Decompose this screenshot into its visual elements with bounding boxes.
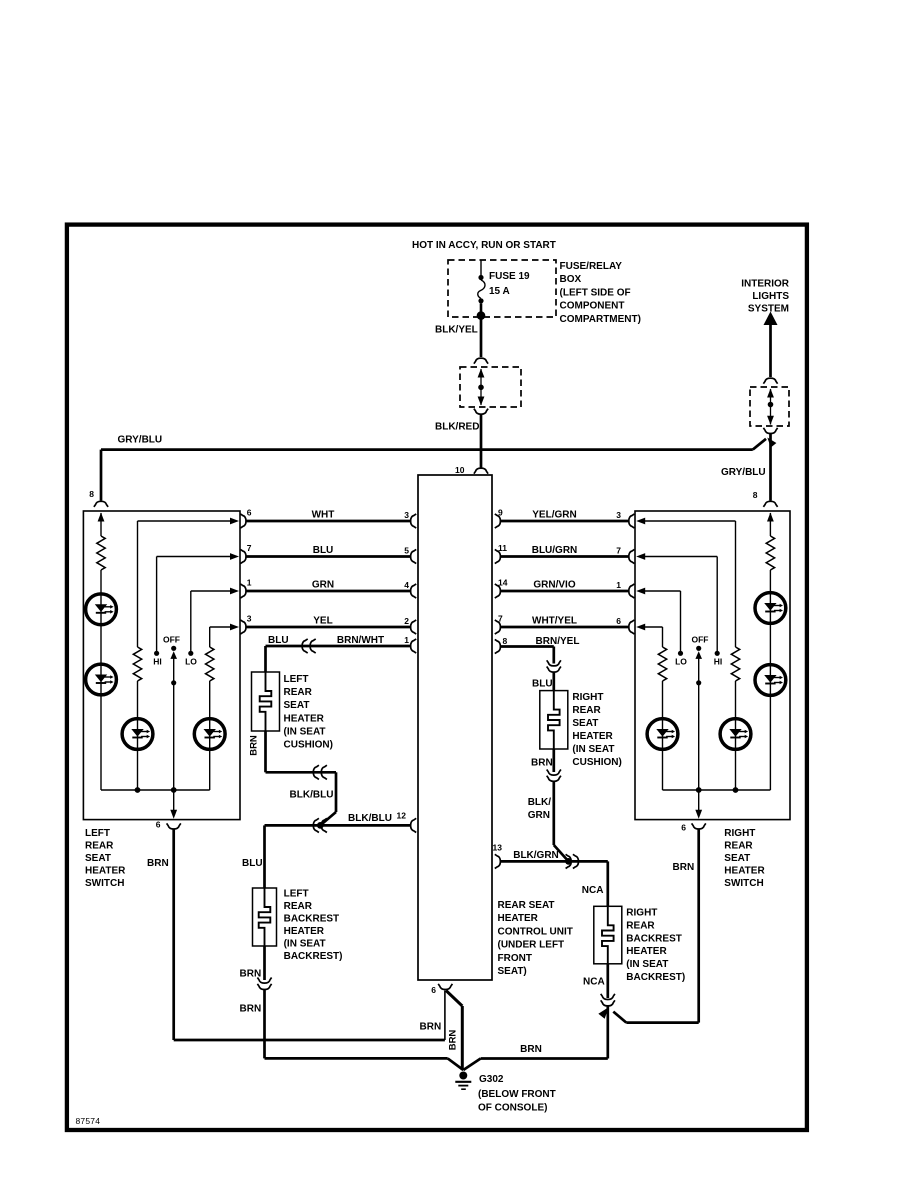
terminal cup control unit pin 6: [438, 984, 452, 990]
terminal cup right switch pin 8: [763, 501, 777, 507]
svg-text:1: 1: [616, 580, 621, 590]
svg-text:12: 12: [397, 810, 407, 820]
svg-text:(UNDER LEFT: (UNDER LEFT: [498, 940, 565, 951]
connector internal arrow down: [767, 416, 774, 425]
inline connector pair on pin 12 wire: [313, 818, 319, 832]
inline connector pair on pin 13 wire: [566, 854, 572, 868]
svg-text:COMPONENT: COMPONENT: [560, 301, 625, 312]
svg-text:1: 1: [247, 578, 252, 588]
wire BLK/BLU down: [335, 772, 338, 812]
left rear seat heater element box (in seat cushion): [252, 672, 280, 731]
connector internal arrow up: [767, 389, 774, 398]
wire BRN control unit pin 6 vertical to ground: [461, 1006, 464, 1070]
left switch resistor R3: [206, 647, 214, 681]
terminal cup control unit pin 7: [495, 620, 501, 634]
inline connector box (dashed) interior lights: [750, 387, 789, 426]
svg-text:GRY/BLU: GRY/BLU: [118, 435, 163, 446]
terminal cup right switch pin 7: [629, 549, 635, 563]
svg-text:BACKREST: BACKREST: [626, 933, 682, 944]
terminal cup control unit pin 14: [495, 584, 501, 598]
junction dot bus-left: [135, 787, 141, 793]
terminal cup below interior lights connector: [763, 428, 777, 434]
svg-text:BOX: BOX: [560, 274, 582, 285]
terminal cup left switch pin 6 bottom: [167, 823, 181, 829]
svg-text:11: 11: [498, 543, 507, 553]
left switch branch to pin 3 (YEL) wire: [210, 626, 230, 628]
terminal cup left switch pin 7: [240, 549, 246, 563]
right switch LED L8: [647, 719, 678, 750]
svg-text:SEAT): SEAT): [498, 966, 527, 977]
svg-text:G302: G302: [479, 1074, 504, 1085]
svg-text:2: 2: [404, 616, 409, 626]
svg-text:BRN: BRN: [531, 757, 553, 768]
wire GRY/BLU diagonal joint: [753, 439, 766, 450]
connector internal arrow up: [478, 369, 485, 378]
right switch LED L6: [755, 665, 786, 696]
svg-text:7: 7: [498, 614, 503, 624]
inline connector pair on right backrest NCA: [601, 994, 615, 1000]
svg-text:HEATER: HEATER: [498, 913, 539, 924]
svg-text:BRN: BRN: [520, 1044, 542, 1055]
svg-text:REAR SEAT: REAR SEAT: [498, 900, 555, 911]
wire BLK/BLU to control unit pin 12: [265, 824, 411, 827]
svg-text:BLU: BLU: [313, 545, 334, 556]
svg-text:4: 4: [404, 580, 409, 590]
heater element right backrest: [602, 906, 614, 964]
wire diagonal into ground node: [448, 1058, 464, 1070]
wire BRN below left cushion heater: [264, 731, 267, 772]
svg-text:10: 10: [455, 465, 465, 475]
svg-text:(BELOW FRONT: (BELOW FRONT: [478, 1089, 556, 1100]
junction dot BLK/GRN: [565, 858, 572, 865]
svg-text:LEFT: LEFT: [85, 828, 110, 839]
svg-text:COMPARTMENT): COMPARTMENT): [560, 314, 641, 325]
svg-text:HEATER: HEATER: [284, 926, 325, 937]
svg-text:RIGHT: RIGHT: [626, 908, 657, 919]
svg-text:REAR: REAR: [626, 920, 655, 931]
left switch arrow up to pin 8: [98, 513, 105, 522]
svg-text:FRONT: FRONT: [498, 953, 532, 964]
inline connector box (dashed) below fuse: [460, 367, 521, 407]
wire GRN left switch pin 1 to control unit pin 4: [246, 590, 410, 593]
wire BLK/GRN control unit pin 13: [501, 860, 608, 863]
svg-text:LEFT: LEFT: [284, 674, 309, 685]
right switch bottom bus: [663, 789, 771, 791]
svg-text:FUSE/RELAY: FUSE/RELAY: [560, 261, 623, 272]
connector internal dot: [768, 402, 774, 408]
left switch HI contact and wire to pin 7: [154, 651, 159, 656]
svg-text:BLU: BLU: [268, 635, 289, 646]
left switch branch to pin 6 (WHT) wire: [138, 520, 231, 522]
right switch branch to pin 3 (YEL/GRN) wire: [645, 520, 736, 522]
terminal cup right switch pin 1: [629, 584, 635, 598]
svg-text:BLU: BLU: [242, 858, 263, 869]
left switch OFF contact: [171, 646, 176, 651]
left switch arrow down to pin 6 bottom: [170, 810, 177, 819]
wire BLU left switch pin 7 to control unit pin 5: [246, 555, 410, 558]
arrow into pin 7 cup: [230, 553, 239, 560]
svg-text:8: 8: [753, 490, 758, 500]
right rear seat heater element box (in seat cushion): [540, 691, 568, 749]
wire BRN control unit pin 6 to ground diagonal: [446, 991, 462, 1007]
svg-text:5: 5: [404, 545, 409, 555]
wire GRY/BLU right drop to right switch pin 8: [769, 434, 772, 501]
arrow into right pin 3 cup: [636, 518, 645, 525]
svg-text:SEAT: SEAT: [724, 853, 750, 864]
terminal cup control unit pin 2: [411, 620, 417, 634]
connector terminal above inline connector (wire end cup): [474, 358, 488, 364]
right switch branch to pin 6 (WHT/YEL) wire: [645, 626, 663, 628]
left switch LED L1: [86, 594, 117, 625]
wire BLU drop from BRN/WHT row to left cushion heater: [264, 646, 267, 672]
wire riser to control unit pin 6: [444, 991, 446, 1041]
svg-text:HOT IN ACCY, RUN OR START: HOT IN ACCY, RUN OR START: [412, 240, 556, 251]
wire BLU into right cushion heater: [552, 672, 555, 690]
svg-text:SEAT: SEAT: [284, 700, 310, 711]
right switch arrow up to pin 8: [767, 513, 774, 522]
wire BRN to ground run: [263, 990, 266, 1059]
terminal cup control unit pin 12: [411, 818, 417, 832]
svg-text:13: 13: [493, 843, 503, 853]
wire BRN diagonal with arrow to connector: [613, 1012, 626, 1023]
wire BRN horizontal toward backrest connector: [626, 1021, 698, 1024]
svg-text:HEATER: HEATER: [284, 713, 325, 724]
svg-text:8: 8: [89, 489, 94, 499]
svg-text:BRN: BRN: [240, 1004, 262, 1015]
wire NCA to ground run: [606, 1006, 609, 1058]
svg-text:FUSE 19: FUSE 19: [489, 271, 530, 282]
junction dot bus-right: [171, 787, 177, 793]
junction dot BLK/BLU: [317, 822, 324, 829]
terminal cup left switch pin 8: [94, 501, 108, 507]
wire WHT left switch pin 6 to control unit pin 3: [246, 520, 410, 523]
svg-text:6: 6: [247, 508, 252, 518]
right switch OFF contact: [696, 646, 701, 651]
svg-text:BRN: BRN: [420, 1022, 442, 1033]
ground node dot G302: [459, 1072, 467, 1080]
svg-text:LO: LO: [185, 657, 197, 667]
arrow into pin 1 cup: [230, 588, 239, 595]
left switch resistor R1: [97, 536, 105, 570]
svg-text:15 A: 15 A: [489, 286, 510, 297]
svg-text:9: 9: [498, 508, 503, 518]
left switch bottom bus: [101, 789, 210, 791]
arrow into right pin 7 cup: [636, 553, 645, 560]
svg-text:GRY/BLU: GRY/BLU: [721, 467, 766, 478]
svg-text:YEL/GRN: YEL/GRN: [532, 510, 576, 521]
terminal cup right switch pin 6: [629, 620, 635, 634]
svg-text:BRN/WHT: BRN/WHT: [337, 635, 384, 646]
terminal cup control unit pin 8: [495, 639, 501, 653]
wire NCA below right backrest heater: [606, 964, 609, 998]
terminal cup right switch pin 6 bottom: [692, 823, 706, 829]
svg-text:NCA: NCA: [582, 885, 604, 896]
svg-text:14: 14: [498, 578, 508, 588]
wire YEL/GRN control unit pin 9 to right switch pin 3: [501, 520, 629, 523]
svg-text:BLK/BLU: BLK/BLU: [290, 790, 334, 801]
arrowhead BRN to connector: [598, 1005, 611, 1019]
terminal cup above interior lights connector: [763, 378, 777, 384]
right rear backrest heater element box: [594, 906, 622, 964]
svg-text:LO: LO: [675, 657, 687, 667]
left switch resistor R2: [133, 647, 141, 681]
left rear backrest heater element box: [253, 888, 277, 946]
wire GRY/BLU horizontal bus: [101, 448, 753, 451]
svg-text:GRN/VIO: GRN/VIO: [533, 580, 575, 591]
heater element right cushion: [548, 691, 560, 749]
wire BRN from left switch pin 6 down: [172, 830, 175, 1041]
svg-text:3: 3: [247, 614, 252, 624]
border frame: [67, 225, 807, 1130]
svg-text:(IN SEAT: (IN SEAT: [284, 726, 326, 737]
svg-text:(IN SEAT: (IN SEAT: [284, 939, 326, 950]
left switch pin 8 branch wire: [100, 513, 102, 536]
control unit U1 box: [418, 475, 492, 980]
svg-text:BRN: BRN: [147, 858, 169, 869]
svg-text:SWITCH: SWITCH: [85, 878, 124, 889]
terminal cup left switch pin 3: [240, 620, 246, 634]
heater element left backrest: [259, 888, 271, 946]
wire BLK/RED: [480, 415, 483, 468]
wire BRN/WHT control unit pin 1 to left seat cushion heater: [266, 645, 411, 648]
svg-text:CUSHION): CUSHION): [572, 757, 621, 768]
right switch LED L5: [755, 593, 786, 624]
svg-text:BACKREST): BACKREST): [626, 972, 685, 983]
svg-text:BLK/YEL: BLK/YEL: [435, 325, 478, 336]
wire BRN bottom horizontal left: [265, 1057, 448, 1060]
svg-text:REAR: REAR: [724, 841, 753, 852]
svg-text:LIGHTS: LIGHTS: [752, 291, 789, 302]
svg-text:BLU/GRN: BLU/GRN: [532, 545, 578, 556]
svg-text:HEATER: HEATER: [626, 946, 667, 957]
right switch wiper arm: [698, 657, 700, 790]
wire bottom horizontal right: [481, 1057, 608, 1060]
arrow into pin 6 cup: [230, 518, 239, 525]
connector terminal below inline connector (wire end cup): [474, 409, 488, 415]
wire BRN below left backrest heater: [263, 946, 266, 980]
arrow into right pin 1 cup: [636, 588, 645, 595]
inline connector pair on left backrest BRN: [257, 978, 271, 984]
svg-text:INTERIOR: INTERIOR: [741, 279, 790, 290]
svg-text:87574: 87574: [76, 1116, 101, 1126]
junction dot fuse box output: [477, 311, 486, 320]
svg-text:GRN: GRN: [312, 580, 334, 591]
wire BLK/GRN down: [552, 782, 555, 845]
svg-text:BRN: BRN: [448, 1030, 459, 1051]
right switch arrow down to pin 6 bottom: [695, 810, 702, 819]
svg-text:SEAT: SEAT: [85, 853, 111, 864]
wire BLK/YEL: [480, 316, 483, 357]
wire BRN horizontal to control unit pin 6: [174, 1039, 445, 1042]
svg-text:SEAT: SEAT: [572, 718, 598, 729]
inline connector pair on right cushion feed: [547, 660, 561, 666]
arrow to interior lights system: [764, 312, 778, 326]
svg-text:BLK/BLU: BLK/BLU: [348, 813, 392, 824]
wire to interior lights: [769, 323, 772, 377]
terminal cup right switch pin 3: [629, 514, 635, 528]
svg-text:(IN SEAT: (IN SEAT: [572, 744, 614, 755]
terminal cup control unit pin 4: [411, 584, 417, 598]
svg-text:BLK/GRN: BLK/GRN: [513, 850, 559, 861]
svg-text:SWITCH: SWITCH: [724, 878, 763, 889]
svg-text:(LEFT SIDE OF: (LEFT SIDE OF: [560, 287, 631, 298]
svg-text:SYSTEM: SYSTEM: [748, 304, 789, 315]
svg-text:6: 6: [681, 823, 686, 833]
svg-text:GRN: GRN: [528, 810, 550, 821]
svg-text:REAR: REAR: [284, 687, 313, 698]
ground symbol bars: [455, 1081, 471, 1083]
svg-text:REAR: REAR: [85, 841, 114, 852]
left switch pole junction dot: [171, 680, 176, 685]
terminal cup control unit pin 11: [495, 549, 501, 563]
svg-text:BRN: BRN: [673, 862, 695, 873]
left switch LED L3: [122, 719, 153, 750]
left switch LED L4: [194, 719, 225, 750]
svg-text:3: 3: [616, 510, 621, 520]
svg-text:OF CONSOLE): OF CONSOLE): [478, 1102, 547, 1113]
svg-text:6: 6: [431, 985, 436, 995]
svg-text:7: 7: [247, 543, 252, 553]
wire BLU/GRN control unit pin 11 to right switch pin 7: [501, 555, 629, 558]
terminal cup control unit pin 13: [495, 854, 501, 868]
terminal cup left switch pin 6: [240, 514, 246, 528]
svg-text:3: 3: [404, 510, 409, 520]
svg-text:NCA: NCA: [583, 977, 605, 988]
svg-text:7: 7: [616, 546, 621, 556]
svg-text:CUSHION): CUSHION): [284, 740, 333, 751]
right switch resistor R5: [731, 647, 739, 681]
right switch LED L7: [720, 719, 751, 750]
svg-text:HEATER: HEATER: [572, 731, 613, 742]
terminal cup control unit pin 5: [411, 549, 417, 563]
junction dot bus-left right switch: [696, 787, 702, 793]
svg-text:BACKREST: BACKREST: [284, 914, 340, 925]
left switch LO contact and wire to pin 1: [188, 651, 193, 656]
svg-text:(IN SEAT: (IN SEAT: [626, 959, 668, 970]
wire NCA drop to right backrest heater: [606, 861, 609, 906]
fuse/relay box (dashed): [448, 260, 556, 317]
wire BLK/BLU diagonal to junction: [320, 812, 336, 825]
svg-text:HI: HI: [153, 657, 162, 667]
wire BRN horizontal to connector: [266, 771, 337, 774]
svg-text:OFF: OFF: [163, 635, 180, 645]
inline connector pair on BRN/WHT wire: [302, 639, 308, 653]
svg-text:YEL: YEL: [313, 616, 332, 627]
terminal cup left switch pin 1: [240, 584, 246, 598]
svg-text:RIGHT: RIGHT: [572, 692, 603, 703]
wire YEL left switch pin 3 to control unit pin 2: [246, 626, 410, 629]
svg-text:REAR: REAR: [572, 705, 601, 716]
right switch HI contact and wire to pin 7: [715, 651, 720, 656]
wire BRN/YEL control unit pin 8 to right seat cushion heater: [501, 645, 554, 648]
svg-text:RIGHT: RIGHT: [724, 828, 755, 839]
svg-text:BACKREST): BACKREST): [284, 951, 343, 962]
terminal cup control unit pin 10: [474, 468, 488, 474]
svg-text:HEATER: HEATER: [85, 866, 126, 877]
junction dot bus-right right switch: [733, 787, 739, 793]
svg-text:1: 1: [404, 635, 409, 645]
wire WHT/YEL control unit pin 7 to right switch pin 6: [501, 626, 629, 629]
right switch resistor R6: [658, 647, 666, 681]
svg-text:8: 8: [503, 636, 508, 646]
svg-text:BLK/RED: BLK/RED: [435, 422, 479, 433]
wire GRY/BLU left drop to left switch pin 8: [100, 450, 103, 501]
wire BRN/YEL drop: [552, 647, 555, 664]
right switch pin 8 branch wire: [769, 513, 771, 536]
svg-text:6: 6: [156, 820, 161, 830]
left rear seat heater switch S1 box: [83, 511, 240, 820]
wire diagonal into ground node right: [463, 1059, 480, 1071]
terminal cup control unit pin 9: [495, 514, 501, 528]
left switch LED L2: [86, 664, 117, 695]
left switch wiper arm: [173, 657, 175, 790]
wire BLU drop to left backrest heater: [263, 825, 266, 888]
arrowhead GRY/BLU joint: [765, 435, 777, 447]
terminal cup control unit pin 3: [411, 514, 417, 528]
inline connector pair below right cushion heater: [547, 770, 561, 776]
svg-text:OFF: OFF: [692, 635, 709, 645]
svg-text:HEATER: HEATER: [724, 866, 765, 877]
right switch LO contact and wire to pin 1: [678, 651, 683, 656]
wire BLK/GRN diagonal to junction: [554, 845, 569, 861]
svg-text:WHT: WHT: [312, 510, 335, 521]
right switch resistor R4: [766, 536, 774, 570]
svg-text:CONTROL UNIT: CONTROL UNIT: [498, 926, 573, 937]
svg-text:REAR: REAR: [284, 901, 313, 912]
fuse F13 16A: [480, 260, 482, 275]
terminal cup control unit pin 1: [411, 639, 417, 653]
svg-text:6: 6: [616, 616, 621, 626]
arrow into right pin 6 cup: [636, 624, 645, 631]
wire BRN below right cushion heater: [552, 749, 555, 772]
svg-text:HI: HI: [714, 657, 723, 667]
arrow into pin 3 cup: [230, 624, 239, 631]
heater element left cushion: [260, 672, 272, 731]
inline connector pair on left cushion BRN wire: [313, 765, 319, 779]
right switch pole junction dot: [696, 680, 701, 685]
svg-text:WHT/YEL: WHT/YEL: [532, 616, 577, 627]
svg-text:LEFT: LEFT: [284, 889, 309, 900]
right rear seat heater switch S2 box: [635, 511, 790, 820]
wire GRN/VIO control unit pin 14 to right switch pin 1: [501, 590, 629, 593]
svg-text:BRN/YEL: BRN/YEL: [536, 636, 580, 647]
svg-text:BLK/: BLK/: [528, 797, 552, 808]
svg-text:BLU: BLU: [532, 678, 553, 689]
wire BRN from right switch pin 6 down: [697, 830, 700, 1023]
svg-text:BRN: BRN: [249, 735, 260, 756]
connector internal arrow down: [478, 397, 485, 406]
connector internal dot: [478, 385, 484, 391]
